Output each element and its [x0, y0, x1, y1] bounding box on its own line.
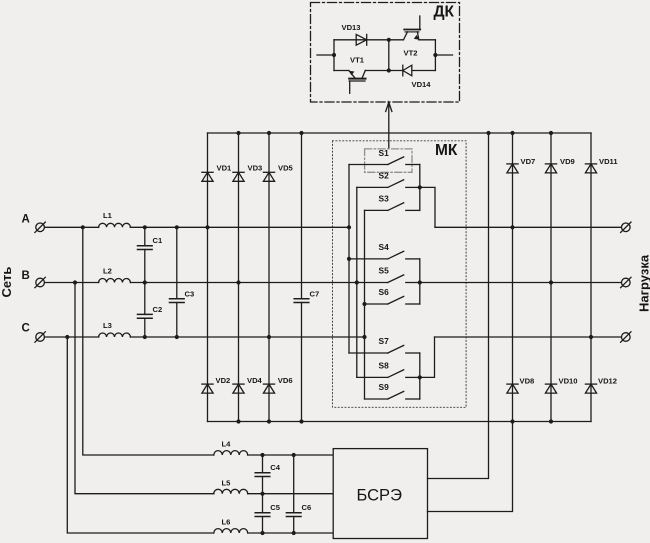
- node L6 row / C6: [292, 531, 296, 535]
- diode VD1: [202, 172, 213, 181]
- svg-text:Нагрузка: Нагрузка: [637, 254, 650, 312]
- svg-text:B: B: [22, 270, 30, 282]
- terminal output phase A: [621, 222, 631, 232]
- wire BSRE output 1 to bus-to-bus column: [428, 422, 489, 479]
- diode VD4: [233, 384, 244, 393]
- transistor VT2: [404, 16, 421, 40]
- diode VD2: [202, 384, 213, 393]
- wire output group 2 vertical: [419, 259, 421, 304]
- diode VD10: [545, 384, 556, 393]
- svg-text:VD2: VD2: [216, 376, 231, 385]
- capacitor C3: [170, 299, 185, 303]
- node bottom bus / VD6 column: [267, 419, 271, 423]
- svg-text:БСРЭ: БСРЭ: [357, 487, 403, 505]
- svg-text:L4: L4: [222, 440, 232, 449]
- switch S5: [357, 275, 420, 283]
- svg-text:VT2: VT2: [404, 49, 418, 58]
- wire input phase A line: [45, 226, 349, 228]
- svg-text:S3: S3: [379, 194, 390, 204]
- svg-text:S5: S5: [379, 266, 390, 276]
- svg-text:VD7: VD7: [521, 157, 536, 166]
- capacitor C7: [294, 299, 309, 303]
- wire input rail B (matrix): [356, 187, 358, 377]
- wire DK top-right branch: [389, 39, 436, 41]
- node top bus / VD7 column: [510, 131, 514, 135]
- node phase C / C3: [175, 335, 179, 339]
- switch S1: [349, 157, 420, 165]
- svg-text:C6: C6: [302, 503, 312, 512]
- wire tap phase C down to L6 row: [67, 337, 214, 533]
- wire tap phase B down to L5 row: [75, 283, 214, 494]
- terminal output phase C: [621, 332, 631, 342]
- node phase B / tap: [73, 280, 77, 284]
- terminal output phase B: [621, 277, 631, 287]
- wire column VD3-VD4: [238, 133, 240, 422]
- wire DK bottom-left branch: [334, 70, 389, 72]
- transistor VT1: [349, 71, 366, 94]
- capacitor C4: [255, 473, 270, 477]
- wire column VD7-VD8: [512, 133, 514, 422]
- inductor L3: [99, 333, 131, 337]
- node phase A / VD1 column: [205, 225, 209, 229]
- switch S4: [349, 251, 420, 259]
- node phase B / rail B: [355, 280, 359, 284]
- svg-text:L6: L6: [222, 518, 231, 527]
- node bottom bus / VD8 column: [510, 419, 514, 423]
- svg-text:ДК: ДК: [434, 4, 455, 21]
- capacitor C2: [138, 314, 153, 318]
- svg-text:VD10: VD10: [559, 377, 578, 386]
- node phase C / C2: [143, 335, 147, 339]
- wire L5 row to BSRE: [248, 493, 334, 495]
- wire top DC bus: [208, 132, 592, 134]
- wire DK right terminal stub: [435, 54, 452, 56]
- svg-text:S8: S8: [379, 361, 390, 371]
- node top bus / right column: [486, 131, 490, 135]
- svg-text:S1: S1: [379, 148, 390, 158]
- diode VD6: [263, 384, 274, 393]
- wire input phase C line: [45, 336, 365, 338]
- svg-text:C4: C4: [270, 463, 280, 472]
- wire L4 row to BSRE: [248, 454, 334, 456]
- svg-text:VD14: VD14: [412, 80, 432, 89]
- capacitor C1: [138, 246, 153, 250]
- BSRE block box: [333, 449, 427, 539]
- wire output group 1 vertical: [419, 165, 421, 211]
- svg-text:S7: S7: [379, 336, 390, 346]
- wire output group 3 vertical: [419, 353, 421, 399]
- diode VD12: [585, 384, 596, 393]
- svg-text:VT1: VT1: [350, 56, 365, 65]
- wire column VD11-VD12: [590, 133, 592, 422]
- svg-text:VD4: VD4: [247, 376, 263, 385]
- node rail C / S6: [362, 302, 366, 306]
- diode VD14: [403, 65, 412, 76]
- svg-text:S4: S4: [379, 242, 390, 252]
- wire column C7: [301, 133, 303, 422]
- svg-text:L2: L2: [103, 266, 112, 275]
- wire bottom DC bus: [208, 421, 592, 423]
- svg-text:L3: L3: [103, 321, 112, 330]
- wire BSRE output 2 to VD8 column: [428, 422, 513, 512]
- wire C6 branch column: [293, 455, 295, 533]
- wire output phase A line: [435, 226, 621, 228]
- svg-text:C: C: [22, 323, 30, 335]
- node phase C / rail C: [362, 335, 366, 339]
- diode VD7: [507, 164, 518, 173]
- wire DK bottom-right branch: [389, 70, 436, 72]
- node group2 output / S5: [418, 280, 422, 284]
- wire input rail C (matrix): [364, 210, 366, 399]
- svg-text:МК: МК: [435, 142, 458, 159]
- node DK left: [332, 53, 336, 57]
- svg-text:VD5: VD5: [278, 163, 294, 172]
- node phase A / rail A: [347, 225, 351, 229]
- wire C1-C2 branch column: [144, 227, 146, 337]
- svg-text:C3: C3: [185, 290, 195, 299]
- terminal input phase A: [35, 222, 45, 232]
- switch S3: [365, 203, 420, 211]
- svg-text:VD11: VD11: [599, 157, 618, 166]
- switch S2: [357, 180, 420, 188]
- wire DK center vertical: [388, 40, 390, 71]
- wire output group 1 jog to phase A out: [420, 187, 435, 227]
- wire DK left vertical: [333, 40, 335, 71]
- wire column bus-to-bus right of MK: [488, 133, 490, 422]
- wire C4-C5 branch column: [262, 455, 264, 533]
- node L6 row / C5: [260, 531, 264, 535]
- wire column VD5-VD6: [268, 133, 270, 422]
- inductor L1: [99, 223, 131, 227]
- arrow from S1 to DK: [386, 102, 392, 149]
- wire tap phase A down to L4 row: [83, 227, 214, 455]
- svg-text:VD12: VD12: [598, 377, 617, 386]
- svg-text:S9: S9: [379, 382, 390, 392]
- node phase C / VD5 column: [267, 335, 271, 339]
- diode VD3: [233, 172, 244, 181]
- node output B / VD9 column: [549, 280, 553, 284]
- node L4 row / C6: [292, 453, 296, 457]
- svg-text:VD13: VD13: [342, 23, 361, 32]
- node group1 output / S2: [418, 185, 422, 189]
- node output A / VD7 column: [510, 225, 514, 229]
- wire C3 branch column: [176, 227, 178, 337]
- svg-text:VD3: VD3: [248, 163, 263, 172]
- terminal input phase B: [35, 277, 45, 287]
- node DK center top: [387, 38, 391, 42]
- node rail A / S4: [347, 257, 351, 261]
- svg-text:VD8: VD8: [520, 377, 535, 386]
- svg-text:S2: S2: [379, 171, 390, 181]
- svg-text:L5: L5: [222, 479, 232, 488]
- diode VD11: [585, 164, 596, 173]
- svg-text:VD1: VD1: [217, 163, 233, 172]
- svg-text:S6: S6: [379, 287, 390, 297]
- capacitor C5: [255, 513, 270, 517]
- node top bus / VD3 column: [236, 131, 240, 135]
- wire column VD9-VD10: [550, 133, 552, 422]
- S1 highlight dash-dot box: [365, 149, 412, 172]
- wire L6 row to BSRE: [248, 532, 334, 534]
- node phase B / C1-C2: [143, 280, 147, 284]
- node phase A / C3: [175, 225, 179, 229]
- DK unit dash-dot box: [311, 3, 460, 103]
- inductor L6: [214, 529, 248, 533]
- node DK right: [433, 53, 437, 57]
- diode VD9: [545, 164, 556, 173]
- node bottom bus / C7 column: [299, 419, 303, 423]
- svg-text:C2: C2: [153, 305, 163, 314]
- wire DK right vertical: [434, 40, 436, 71]
- svg-text:L1: L1: [103, 211, 113, 220]
- node top bus / VD9 column: [549, 131, 553, 135]
- node phase A / tap: [81, 225, 85, 229]
- node DK center bottom: [387, 68, 391, 72]
- diode VD13: [356, 34, 367, 45]
- terminal input phase C: [35, 332, 45, 342]
- switch S6: [365, 296, 420, 304]
- wire DK top-left branch: [334, 39, 389, 41]
- node phase C / tap: [65, 335, 69, 339]
- capacitor C6: [286, 513, 301, 517]
- wire input phase B line: [45, 282, 357, 284]
- inductor L5: [214, 489, 248, 493]
- switch S8: [357, 370, 420, 378]
- diode VD8: [507, 384, 518, 393]
- svg-text:VD6: VD6: [278, 376, 293, 385]
- svg-text:C7: C7: [310, 290, 320, 299]
- svg-text:C1: C1: [153, 236, 163, 245]
- switch S9: [365, 391, 420, 399]
- node phase B / VD3 column: [236, 280, 240, 284]
- wire column VD1-VD2: [207, 133, 209, 422]
- wire input rail A (matrix): [348, 165, 350, 354]
- svg-text:C5: C5: [270, 503, 280, 512]
- node bottom bus / VD10 column: [549, 419, 553, 423]
- node L5 row / C4-C5: [260, 492, 264, 496]
- inductor L2: [99, 278, 131, 282]
- diode VD5: [263, 172, 274, 181]
- node phase A / C1: [143, 225, 147, 229]
- wire output group 3 jog to phase C out: [420, 337, 435, 377]
- node top bus / C7 column: [299, 131, 303, 135]
- node top bus / VD5 column: [267, 131, 271, 135]
- inductor L4: [214, 451, 248, 455]
- svg-text:Сеть: Сеть: [0, 267, 14, 298]
- svg-text:A: A: [22, 214, 30, 226]
- wire output phase B line: [420, 282, 622, 284]
- MK unit dotted box: [333, 141, 467, 408]
- svg-text:VD9: VD9: [560, 157, 575, 166]
- wire output phase C line: [435, 336, 622, 338]
- wire DK left terminal stub: [317, 54, 334, 56]
- node output C / VD11 column: [589, 335, 593, 339]
- node bottom bus / VD4 column: [236, 419, 240, 423]
- node group3 output / S8: [418, 375, 422, 379]
- switch S7: [349, 345, 420, 353]
- node L4 row / C4: [260, 453, 264, 457]
